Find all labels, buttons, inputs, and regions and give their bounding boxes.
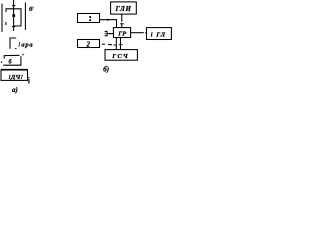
arrowhead on wire from block1	[107, 19, 110, 21]
left holder plate	[1, 4, 3, 32]
i mark right of box	[28, 77, 29, 78]
svg-text:2: 2	[86, 40, 91, 48]
callout bracket	[10, 38, 16, 49]
svg-text:!ДЧ!: !ДЧ!	[8, 74, 23, 81]
lead top tick	[12, 5, 15, 7]
crystal center lead	[13, 0, 15, 31]
label 1	[89, 16, 91, 18]
center electrode dot	[12, 14, 15, 17]
connector at GR left	[105, 31, 107, 35]
block GSCh (bottom)	[105, 50, 137, 61]
lead bottom tick	[12, 26, 15, 28]
block GR (middle)	[113, 28, 130, 38]
svg-text:ГСЧ: ГСЧ	[111, 53, 129, 60]
right holder plate	[24, 3, 26, 31]
box b (middle left)	[4, 55, 19, 58]
svg-text:ГЛ: ГЛ	[155, 31, 166, 38]
block 1	[78, 14, 100, 23]
block GLI (top)	[111, 2, 137, 14]
block GVCh (right)	[147, 28, 172, 40]
small arrowhead at GR left lead	[109, 33, 112, 35]
svg-text:а): а)	[12, 86, 18, 94]
box IDCh (bottom left)	[1, 70, 28, 80]
svg-text:і: і	[151, 31, 153, 38]
crystal element box	[6, 9, 21, 26]
wire GR down to GSCh (left)	[115, 38, 117, 50]
wire block1 to junction	[100, 20, 117, 28]
svg-text:ГЛИ: ГЛИ	[115, 5, 132, 13]
svg-text:!ара: !ара	[18, 41, 33, 48]
wire GLI down to GR	[121, 14, 123, 22]
wire GR down to GSCh (right)	[120, 38, 122, 50]
block 2	[78, 40, 100, 48]
wire GR to GVCh	[131, 32, 144, 34]
dashed wire from block 2	[102, 43, 105, 45]
svg-text:б): б)	[103, 66, 109, 74]
svg-text:ГР: ГР	[117, 30, 127, 37]
